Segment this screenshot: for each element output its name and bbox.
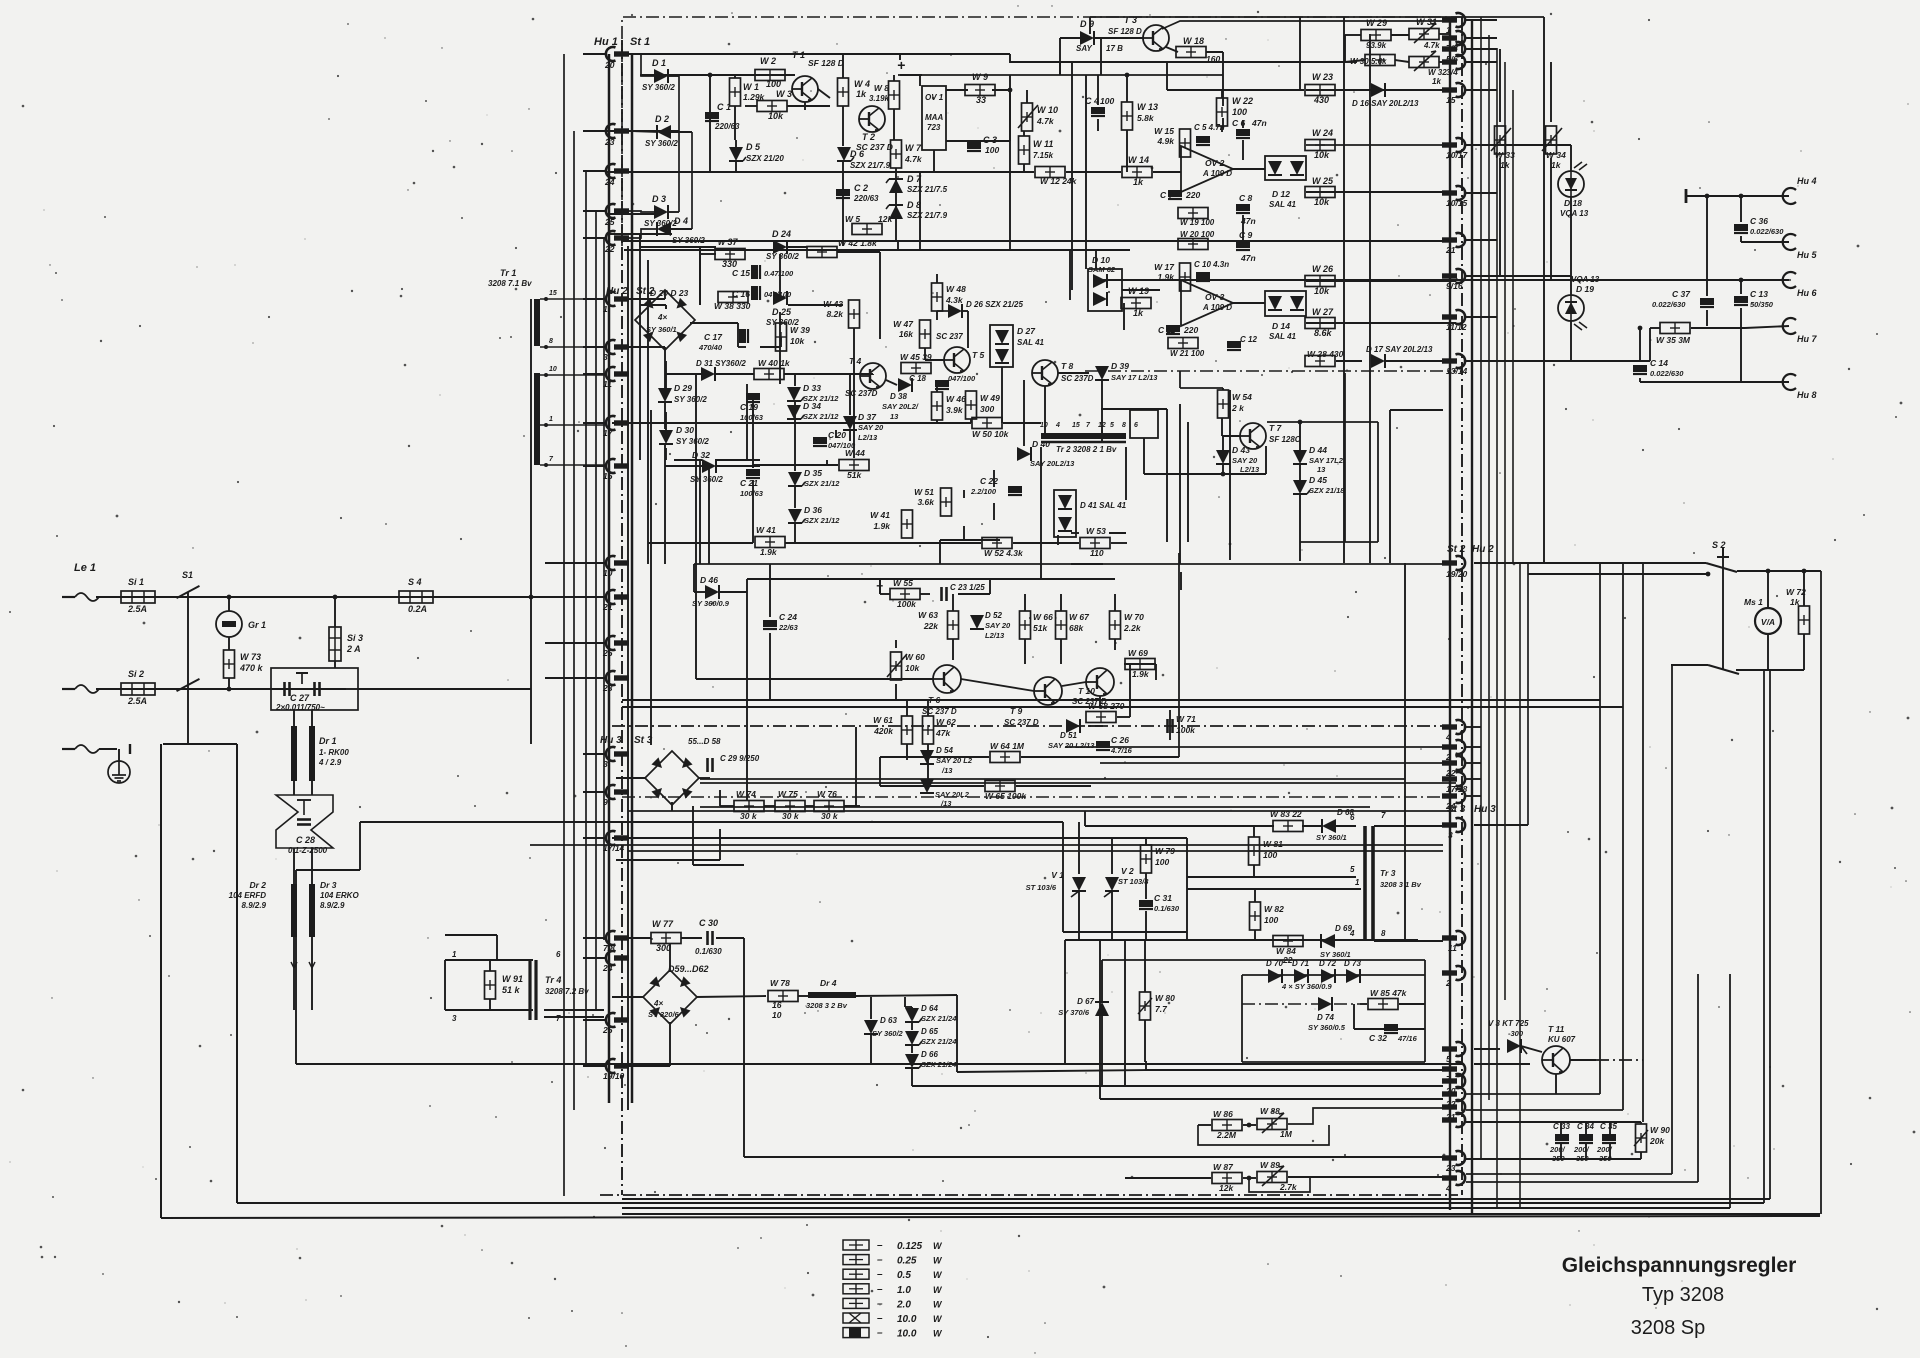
svg-text:Gr 1: Gr 1 [248,620,266,630]
wire [1095,250,1097,269]
wire [735,140,737,147]
wire [612,837,1187,839]
wire [1466,1181,1698,1183]
wire [603,238,605,940]
svg-text:T 10: T 10 [1078,686,1095,696]
svg-text:W 47: W 47 [893,319,914,329]
capacitor C27 block [271,668,358,710]
wire [622,1198,1770,1200]
wire [696,678,933,680]
legend symbol [843,1328,869,1338]
junction [1802,569,1807,574]
capacitor C36 [1734,224,1748,233]
svg-text:SY 360/2: SY 360/2 [642,83,675,92]
wire [1299,464,1301,480]
svg-text:SAY 20 L2/13: SAY 20 L2/13 [1048,741,1095,750]
resistor W86 [1212,1120,1242,1131]
svg-text:7: 7 [556,1014,561,1023]
wire [752,480,754,543]
svg-text:D 45: D 45 [1309,475,1327,485]
svg-text:10.0: 10.0 [897,1329,917,1340]
svg-text:SY 360/2: SY 360/2 [690,475,723,484]
wire [1336,89,1371,91]
svg-text:33: 33 [976,95,986,105]
svg-text:W 13: W 13 [1137,102,1158,112]
wire [787,105,830,107]
wire [937,310,948,312]
diode D16 [1371,83,1385,97]
wire [794,524,796,543]
wire [1242,1061,1425,1063]
arrow marks Dr [291,962,315,968]
wire [1023,131,1025,136]
svg-text:SAL 41: SAL 41 [1017,338,1045,347]
svg-text:12k: 12k [1219,1183,1234,1193]
svg-text:4: 4 [1445,1183,1451,1193]
svg-text:W 51: W 51 [914,487,934,497]
svg-text:D 51: D 51 [1060,731,1077,740]
wire [895,684,897,700]
wire [1555,1074,1557,1094]
wire [853,328,855,458]
wire [1466,1121,1641,1123]
svg-text:2.7k: 2.7k [1279,1182,1298,1192]
wire [1300,541,1378,543]
resistor W73 [224,650,235,678]
wire [334,597,336,627]
wire [1123,303,1125,330]
wire [1803,571,1805,606]
svg-text:5: 5 [1110,422,1114,429]
resistor W76 [814,801,844,812]
junction [1221,472,1226,477]
resistor W75 [775,801,805,812]
terminal Hu4 [1783,188,1796,204]
svg-text:047/100: 047/100 [948,374,976,383]
wire [1155,664,1157,680]
svg-text:4×: 4× [653,999,663,1008]
svg-text:19/20: 19/20 [1446,569,1468,579]
wire [700,806,1370,808]
svg-text:Dr 4: Dr 4 [820,978,837,988]
wire [970,419,972,423]
wire [1071,62,1073,290]
wire [444,960,446,1010]
svg-text:C 31: C 31 [1154,893,1172,903]
svg-text:W 5: W 5 [845,214,860,224]
wire [1187,422,1189,542]
svg-text:SY 360/0.9: SY 360/0.9 [692,599,730,608]
pin St2 right [1442,310,1465,324]
wire [1085,370,1456,372]
wire [842,162,844,241]
svg-text:2.5A: 2.5A [127,604,147,614]
wire [1253,865,1255,877]
wire [595,211,597,1010]
wire [1769,670,1771,1199]
wire [1722,557,1724,670]
pin St2 right [1442,233,1465,247]
svg-text:SY 360/2: SY 360/2 [766,252,799,261]
wire [1222,435,1241,437]
svg-text:W 41: W 41 [756,525,776,535]
wire [1040,564,1042,579]
wire [900,74,922,76]
wire [1299,17,1301,90]
svg-text:2.5A: 2.5A [127,696,147,706]
wire [1345,34,1361,36]
wire [665,361,667,397]
wire [925,359,944,361]
svg-text:D 10: D 10 [1092,255,1110,265]
wire [1166,409,1168,542]
pin St1-24 [606,164,629,178]
svg-text:SY 360/2: SY 360/2 [644,219,677,228]
junction [1705,194,1710,199]
wire [583,791,605,793]
svg-text:9/16: 9/16 [1446,281,1463,291]
wire [1466,192,1497,194]
svg-text:10k: 10k [768,111,784,121]
switch S2 arm [1706,563,1737,572]
svg-text:W 83 22: W 83 22 [1270,809,1302,819]
resistor W31 [1409,29,1439,40]
svg-text:D 30: D 30 [676,425,694,435]
wire [161,1216,1820,1218]
svg-text:D 33: D 33 [803,383,821,393]
wire [952,594,954,611]
pin St3 right lower [1442,1042,1465,1056]
wire [1344,373,1346,542]
wire [296,869,360,871]
svg-text:9: 9 [603,797,608,807]
svg-text:12k: 12k [878,214,893,224]
wire [664,466,666,564]
svg-text:220/63: 220/63 [853,194,879,203]
capacitor C31 [1139,900,1153,909]
svg-text:C 17: C 17 [704,332,723,342]
wire [1697,974,1699,1182]
resistor W3 [757,101,787,112]
svg-text:St 2: St 2 [1447,544,1466,555]
resistor W54 [1218,390,1229,418]
wire [1097,75,1099,105]
wire [1499,49,1501,122]
wire [1249,1177,1310,1192]
wire [1385,360,1456,362]
wire [1299,422,1301,450]
wire [952,639,954,660]
wire [1145,838,1147,845]
resistor W29 [1361,30,1391,41]
wire [1474,562,1706,564]
wire [804,102,806,110]
wire [1146,1069,1443,1071]
wire [1100,38,1102,75]
svg-text:Si 1: Si 1 [128,577,144,587]
wire [648,542,753,544]
svg-text:420k: 420k [873,726,894,736]
svg-text:W 79: W 79 [1155,846,1175,856]
wire [1111,892,1113,940]
svg-text:SZX 21/24: SZX 21/24 [921,1037,957,1046]
transistor T6 [933,665,961,693]
svg-text:W 80: W 80 [1155,993,1175,1003]
wire [1065,939,1418,941]
pin St1-22 [606,231,629,245]
wire [1241,975,1243,1062]
svg-text:1- RK00: 1- RK00 [319,748,349,757]
wire [585,171,587,1063]
diode D4 [657,222,671,236]
svg-text:ST 103/8: ST 103/8 [1118,877,1149,886]
capacitor C17 [739,329,748,343]
svg-text:1k: 1k [1133,177,1144,187]
svg-text:–: – [877,1255,883,1266]
wire [583,753,605,755]
frame dash-dot main block boundary [622,17,1462,246]
wire [1088,725,1103,727]
wire [1058,372,1089,374]
diode D64 [905,1008,922,1022]
svg-text:+: + [897,57,905,73]
wire [1299,494,1301,561]
svg-text:SY 320/6: SY 320/6 [648,1010,680,1019]
LED D19 [1558,295,1587,330]
wire [1060,594,1062,611]
capacitor C10 [1196,272,1210,281]
svg-text:Typ 3208: Typ 3208 [1642,1284,1724,1306]
wire [664,290,666,299]
IC OV1 MAA 723 [922,86,946,150]
svg-text:C 20: C 20 [828,430,846,440]
IC D12 SAL41 [1265,156,1306,180]
svg-text:6: 6 [1350,813,1355,822]
wire [1344,35,1346,62]
wire [530,299,532,744]
svg-text:SY 370/6: SY 370/6 [1058,1008,1090,1017]
wire [583,642,605,644]
wire [622,706,1456,708]
resistor W33 [1495,126,1506,154]
transformer Tr2 [1041,436,1126,442]
svg-text:W 31: W 31 [1416,17,1437,27]
wire [1242,120,1244,128]
wire [1254,889,1256,902]
wire [334,661,336,668]
wire [1024,639,1026,664]
capacitor C11 [1166,325,1180,334]
wire [583,237,605,239]
wire [445,1009,533,1011]
wire [296,1063,1462,1065]
svg-text:220: 220 [1183,325,1198,335]
svg-text:4.7/16: 4.7/16 [1110,746,1133,755]
wire [1122,289,1160,291]
resistor W32 [1409,57,1439,68]
svg-text:Hu 2: Hu 2 [1472,544,1494,555]
wire [1302,825,1322,827]
wire [1466,144,1497,146]
wire [826,460,828,466]
wire [293,974,295,1010]
capacitor C37 [1700,298,1714,307]
svg-text:13/14: 13/14 [1446,366,1468,376]
wire [665,373,701,375]
wire [640,246,716,248]
wire [920,678,933,680]
transistor T4 [860,363,886,389]
svg-text:22/63: 22/63 [778,623,799,632]
svg-text:Dr 2: Dr 2 [249,880,266,890]
wire [920,593,930,595]
wire [1124,940,1126,1086]
wire [1145,911,1147,940]
svg-text:W 63: W 63 [918,610,938,620]
svg-text:Hu 5: Hu 5 [1797,250,1817,260]
wire [1345,60,1365,62]
wire [856,995,957,996]
junction [1247,1176,1252,1181]
svg-text:W 60: W 60 [905,652,925,662]
switch S2 second arm [1708,665,1739,674]
wire [1466,778,1481,780]
svg-text:SZX 21/7.9: SZX 21/7.9 [850,161,891,170]
capacitor C29 [708,758,713,772]
wire [1369,34,1371,563]
svg-text:VQA 13: VQA 13 [1560,209,1589,218]
resistor W62 [923,716,934,744]
svg-text:2 A: 2 A [346,644,361,654]
svg-text:T 8: T 8 [1061,361,1074,371]
svg-text:W 17: W 17 [1154,262,1175,272]
svg-text:0.47/100: 0.47/100 [764,269,794,278]
wire [989,579,991,594]
capacitor C24 [763,620,777,629]
wire [1466,746,1481,748]
svg-text:1M: 1M [1280,1129,1293,1139]
svg-text:20: 20 [604,60,615,70]
wire [1390,409,1443,411]
wire [716,465,760,467]
wire [664,347,666,388]
pin 11 [1442,931,1465,945]
wire [563,54,565,1196]
svg-text:104 ERFD: 104 ERFD [229,891,267,900]
svg-text:3/4: 3/4 [1446,67,1458,77]
wire [629,211,654,212]
wire [911,1006,913,1008]
wire [779,254,781,298]
legend symbol [843,1313,869,1323]
wire [719,829,721,860]
wire [228,637,230,650]
svg-text:W 86: W 86 [1213,1109,1233,1119]
meter Ms1 [1755,608,1781,634]
svg-text:10/17: 10/17 [1446,150,1469,160]
wire [1729,974,1731,1208]
svg-text:L2/13: L2/13 [1240,465,1260,474]
wire [674,459,702,461]
wire [1206,51,1223,53]
wire [607,130,679,132]
transistor T2 [859,106,885,132]
svg-text:SY 360/2: SY 360/2 [645,139,678,148]
resistor W15 [1180,129,1191,157]
resistor W46 [932,392,943,420]
wire [622,796,1443,798]
diode D6 [837,147,854,161]
pin St2 [606,590,629,604]
wire [696,996,766,997]
transistor T11 [1542,1046,1570,1074]
svg-text:C 9: C 9 [1239,230,1253,240]
wire [1021,756,1179,758]
wire [629,229,657,238]
svg-text:C 27: C 27 [290,693,310,703]
svg-text:15: 15 [549,290,557,297]
capacitor C28 block [276,795,333,848]
svg-text:51k: 51k [1033,623,1048,633]
diode D9 [1080,31,1094,45]
wire [1721,279,1789,281]
svg-text:21: 21 [1445,245,1456,255]
wire [1187,888,1361,890]
wire [1642,564,1644,1122]
resistor W65 [985,781,1015,792]
wire [927,700,929,716]
legend symbol [843,1240,869,1250]
svg-text:W 90: W 90 [1650,1125,1670,1135]
wire [629,131,657,132]
svg-text:5: 5 [1350,865,1355,874]
svg-text:W 87: W 87 [1213,1162,1234,1172]
svg-text:8.9/2.9: 8.9/2.9 [320,901,345,910]
capacitor C18 [935,380,949,389]
svg-text:D 1: D 1 [652,58,666,68]
svg-text:W 69: W 69 [1128,648,1148,658]
wire [612,996,644,998]
diode D67 [1095,1002,1109,1016]
wire [293,781,295,795]
wire [699,247,701,305]
junction [1125,73,1130,78]
svg-text:W 48: W 48 [946,284,966,294]
wire [236,744,238,1203]
wire [1466,61,1497,63]
diode D38 [898,378,912,392]
svg-text:17 B: 17 B [1106,44,1123,53]
svg-text:10k: 10k [1314,197,1330,207]
svg-text:11: 11 [603,379,612,389]
wire [622,699,1456,701]
capacitor C2 [836,189,850,198]
pin St2 [606,636,629,650]
svg-text:10k: 10k [905,663,920,673]
wire [1221,90,1223,98]
svg-text:D 71: D 71 [1292,959,1309,968]
resistor W27 [1305,318,1335,329]
transistor T7 [1240,423,1266,449]
resistor W48 [932,283,943,311]
svg-text:SY 360/1: SY 360/1 [646,325,677,334]
wire [665,412,667,432]
wire [1521,1046,1542,1052]
svg-text:160: 160 [1206,54,1220,64]
wire [870,1035,872,1064]
wire [1740,280,1742,294]
svg-text:W 40 1k: W 40 1k [758,358,791,368]
